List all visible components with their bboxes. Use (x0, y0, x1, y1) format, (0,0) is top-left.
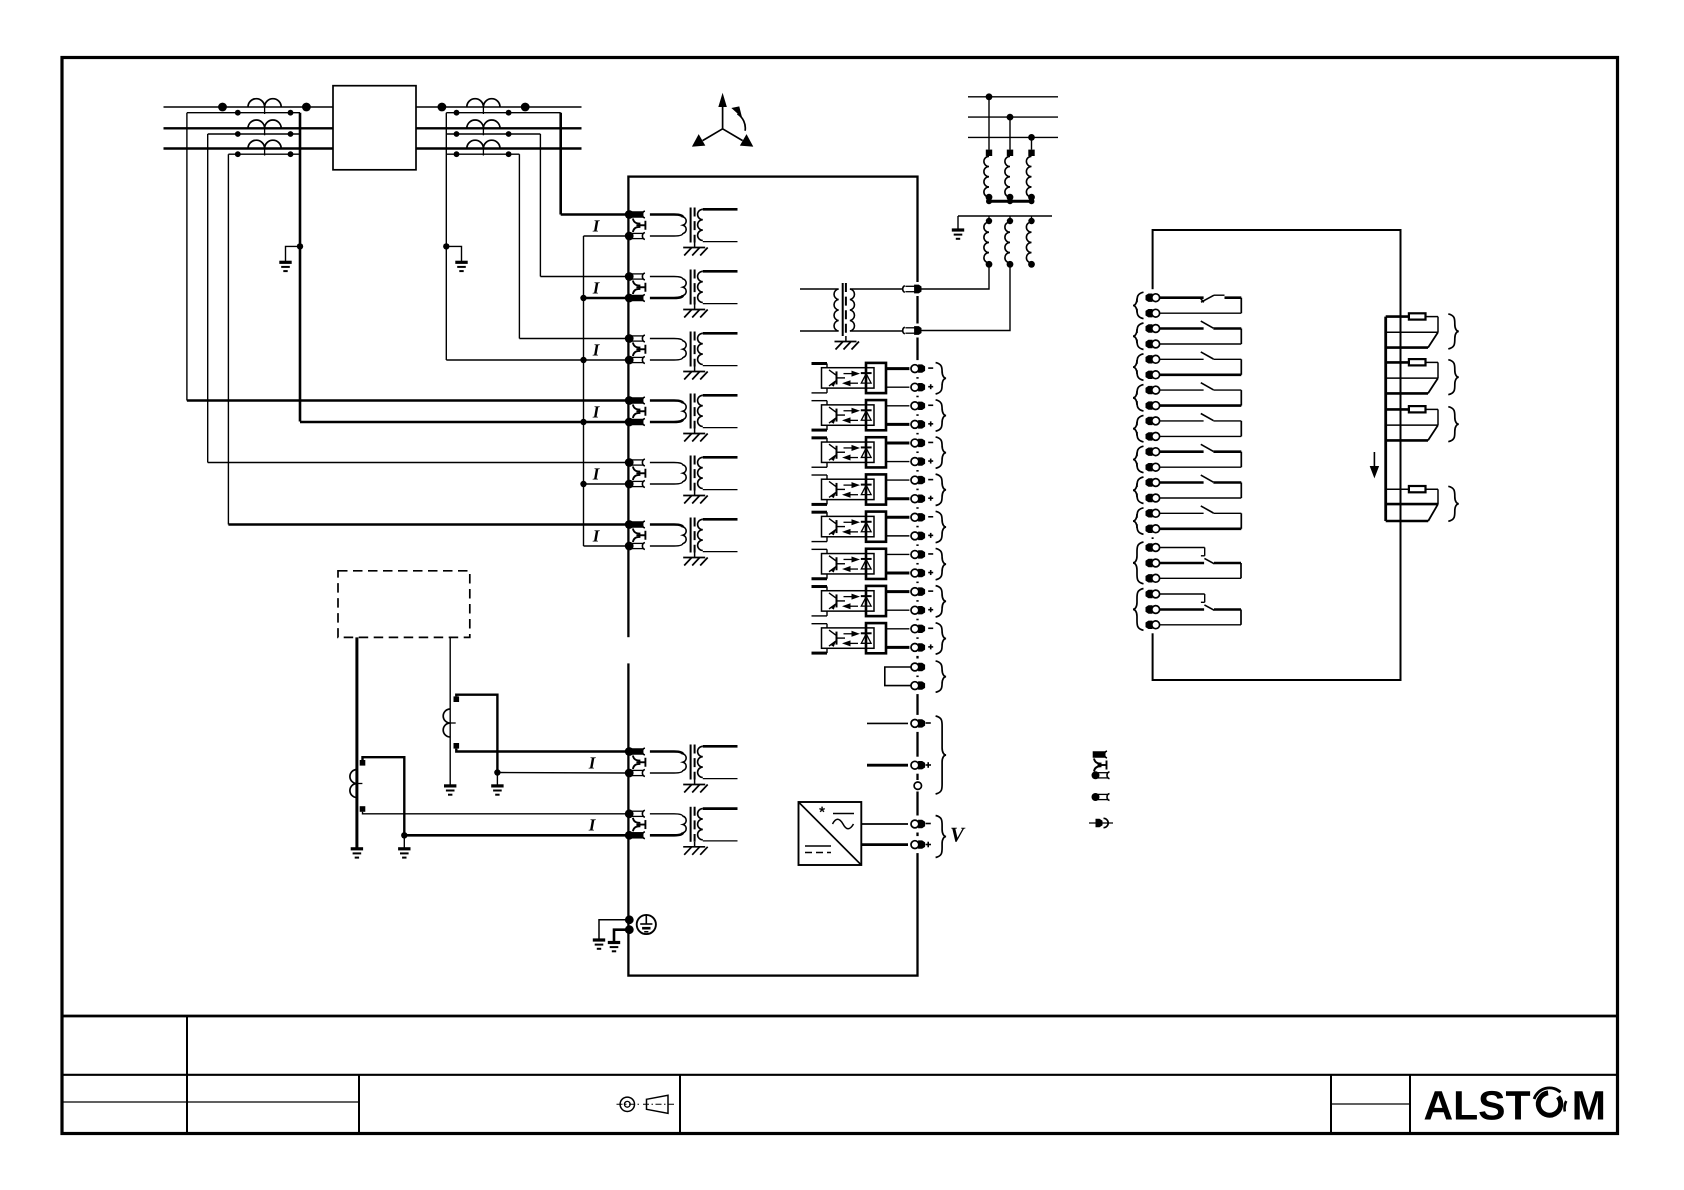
ground lead2 (444, 784, 456, 787)
terminal AC aux N (915, 324, 920, 338)
brace K8 (1133, 508, 1144, 535)
label - (opto3) (928, 441, 933, 443)
node link junction I3- (580, 357, 586, 363)
terminal K10 NC (1150, 586, 1155, 603)
wire case earth a (599, 920, 629, 940)
relay contact K5 (normally open) (1158, 420, 1204, 422)
legend: terminal symbol (1089, 822, 1113, 824)
internal CT T5 (650, 463, 683, 466)
wire T1 common to relay input I4- (300, 421, 628, 424)
brace opto1 (936, 363, 947, 394)
title block top line (62, 1015, 1618, 1018)
terminal AC aux L (915, 282, 920, 296)
terminal opto1 positive (915, 379, 920, 396)
terminal opto8 positive (915, 639, 920, 656)
ground VT secondary (952, 228, 964, 231)
label + (opto6) (928, 572, 933, 574)
node T1 secondary terminals (235, 151, 241, 157)
VT secondary winding phase A (986, 218, 992, 224)
terminal K9 NC (1150, 539, 1155, 556)
wire T1-B left lead drop (207, 134, 209, 463)
relay contact K4 (normally open) (1158, 389, 1204, 391)
wire to relay input I5+ (208, 462, 629, 464)
wire T2 common to relay input I3- (446, 359, 628, 361)
wire PSU to V+ terminal (861, 843, 908, 846)
ground T1 star point (279, 261, 291, 264)
relay case left edge break (626, 637, 632, 663)
title block mid line (62, 1074, 1618, 1076)
node T2 secondary terminals (454, 131, 460, 137)
connector X4 (1386, 488, 1438, 490)
optocoupler input U4 (812, 474, 828, 476)
terminal K9 NO (1150, 570, 1155, 587)
terminal opto4 negative (915, 472, 920, 489)
VT primary star bar (987, 200, 1035, 203)
wire VT primary tap phase A (988, 97, 990, 150)
brace V (936, 816, 947, 858)
terminal V- (915, 816, 920, 833)
auxiliary transformer Taux (800, 288, 839, 290)
node T2 star earth tap (443, 243, 449, 249)
T1 phase C secondary lead wire (228, 153, 300, 155)
relay CT input channel I4 terminals (625, 396, 634, 405)
label + (opto3) (928, 460, 933, 462)
label + (opto7) (928, 609, 933, 611)
terminal K10 NO (1150, 616, 1155, 633)
node link junction I2- (580, 295, 586, 301)
wire CT T8 return to relay I8- (404, 834, 628, 837)
node link junction I5- (580, 481, 586, 487)
terminal K3 a (1150, 351, 1155, 368)
title block cell divider v1 (186, 1016, 188, 1134)
connector X1 (1386, 315, 1410, 318)
wire DC aux positive (867, 764, 908, 767)
node T1 secondary terminals (235, 110, 241, 116)
terminal K5 a (1150, 412, 1155, 429)
optocoupler input U2 (812, 400, 828, 402)
transformer block (rectangle) (333, 86, 416, 170)
title block cell divider v2 (358, 1075, 360, 1134)
wire T2-C right lead drop (518, 154, 520, 338)
terminal K4 a (1150, 382, 1155, 399)
brace opto5 (936, 511, 947, 542)
relay output case (rectangle) (1153, 230, 1401, 680)
brace connector X2 (1448, 360, 1459, 395)
terminal opto3 positive (915, 453, 920, 470)
terminal K7 b (1150, 490, 1155, 507)
legend: disconnect terminal symbol (1092, 793, 1100, 801)
ground CT T7 (491, 784, 503, 787)
relay contact K6 (normally open) (1158, 450, 1204, 453)
label + (V) (926, 844, 932, 846)
brace K1 (1133, 292, 1144, 319)
wire T1-A left lead drop (186, 113, 188, 401)
title block cell divider v5 (1409, 1075, 1411, 1134)
T2 phase A secondary lead wire (446, 112, 560, 114)
CT T8 secondary terminals (360, 760, 366, 766)
node T2 secondary terminals (454, 151, 460, 157)
VT bus line L1 (968, 96, 1058, 98)
label + (DC aux) (926, 764, 932, 766)
VT primary winding phase C (1028, 150, 1034, 156)
wire T2-B right lead drop (539, 134, 541, 277)
VT secondary winding phase B (1007, 218, 1013, 224)
CT bank T1 phase B (humps) (248, 120, 281, 128)
brace K9 (1133, 542, 1144, 584)
CT T7 secondary terminals (454, 696, 460, 702)
optocoupler input U5 (812, 511, 828, 514)
relay CT input channel I7 terminals (625, 747, 634, 756)
label + (opto4) (928, 497, 933, 499)
label - (opto4) (928, 479, 933, 481)
brace opto6 (936, 548, 947, 579)
label - (opto8) (928, 627, 933, 629)
title block cell divider v4 (1330, 1075, 1332, 1134)
relay CT input channel I8 terminals (625, 809, 634, 818)
wire PSU to V- terminal (861, 823, 908, 825)
relay CT input channel I6 terminals (625, 520, 634, 529)
terminal K5 b (1150, 428, 1155, 445)
label - (opto6) (928, 553, 933, 555)
brace DC aux (936, 716, 947, 794)
power supply unit (DC/AC converter) (799, 802, 862, 865)
wire relay input I1- (584, 235, 629, 237)
relay contact K3 (normally open) (1158, 358, 1204, 360)
terminal K9 common (1150, 555, 1155, 572)
brace K4 (1133, 385, 1144, 412)
relay contact K9 (changeover) (1158, 547, 1205, 549)
VT secondary common wire (958, 215, 1052, 217)
node VT tap L1 (986, 93, 993, 100)
connector X2 (1386, 361, 1410, 364)
protective earth symbol (circled) (637, 915, 656, 934)
internal CT T8 (650, 814, 683, 817)
VT primary winding phase A (986, 150, 992, 156)
relay CT input channel I2 terminals (625, 272, 634, 281)
internal CT T6 (650, 525, 683, 528)
wire CT T8 earth stem (403, 835, 405, 849)
arrow (insertion direction) (1373, 452, 1375, 470)
brace opto2 (936, 400, 947, 431)
terminal K6 a (1150, 443, 1155, 460)
node VT tap L2 (1007, 114, 1014, 121)
relay CT input channel I3 terminals (625, 334, 634, 343)
internal CT T4 (650, 401, 683, 404)
terminal DC aux positive (915, 757, 920, 774)
terminal opto3 negative (915, 434, 920, 451)
relay contact K2 (normally open) (1158, 327, 1204, 330)
ground T2 star point (455, 261, 467, 264)
T2 phase B secondary lead wire (446, 133, 540, 135)
ground case earth b (608, 941, 620, 944)
T2 phase C secondary lead wire (446, 153, 519, 155)
label - (opto2) (928, 404, 933, 406)
brace connector X4 (1448, 486, 1459, 521)
CT T8 (lower sensing CT) (350, 770, 357, 798)
wire VT secondary earth stem (957, 216, 959, 230)
terminal opto7 positive (915, 602, 920, 619)
wire T1-C left lead drop (227, 154, 229, 524)
node CT T7 return tap (494, 769, 500, 775)
wire T2 star point drop (445, 113, 447, 360)
wire DC aux negative (867, 722, 908, 724)
brace K5 (1133, 415, 1144, 442)
label - (opto7) (928, 590, 933, 592)
terminal opto6 negative (915, 546, 920, 563)
terminal K8 b (1150, 520, 1155, 537)
wire VT secondary A to relay (918, 264, 989, 289)
wire dashed box lead 2 (449, 637, 451, 786)
terminal K2 b (1150, 336, 1155, 353)
terminal K8 a (1150, 505, 1155, 522)
brace K7 (1133, 477, 1144, 504)
legend: CT test terminal pair symbol (1093, 751, 1106, 758)
wire common return link (583, 236, 585, 546)
VT bus line L3 (968, 136, 1058, 138)
wire CT T7 return to relay I7- (497, 772, 628, 775)
terminal K3 b (1150, 366, 1155, 383)
ground CT T8 (398, 847, 410, 850)
brace connector X3 (1448, 407, 1459, 442)
external equipment (dashed box) (338, 571, 470, 638)
terminal K7 a (1150, 474, 1155, 491)
wire case earth b (614, 930, 629, 943)
terminal opto5 positive (915, 527, 920, 544)
first angle projection symbol (620, 1097, 634, 1111)
terminal K4 b (1150, 397, 1155, 414)
wire to T2 earth (446, 246, 461, 261)
brace opto3 (936, 437, 947, 468)
T1 phase A secondary lead wire (187, 112, 300, 114)
label - (DC aux) (926, 722, 931, 724)
relay CT input channel I1 terminals (625, 210, 634, 219)
wire CT T7 to relay I7+ (456, 749, 628, 752)
relay contact K7 (normally open) (1158, 481, 1204, 484)
ground lead1 (351, 847, 363, 850)
brace K2 (1133, 323, 1144, 350)
terminal opto6 positive (915, 565, 920, 582)
CT T7 (upper sensing CT) (443, 709, 450, 737)
optocoupler input U7 (812, 585, 828, 588)
phase line L1 (164, 106, 582, 108)
VT primary winding phase B (1007, 150, 1013, 156)
brace opto8 (936, 623, 947, 654)
T1 phase B secondary lead wire (208, 133, 300, 135)
brace opto7 (936, 586, 947, 617)
CT bank T2 phase C (humps) (467, 140, 500, 148)
wire to relay input I2+ (540, 276, 628, 278)
wire T1 star point drop (299, 113, 302, 422)
optocoupler input U1 (812, 362, 828, 365)
label + (opto2) (928, 423, 933, 425)
relay contact K1 (normally open) (1158, 296, 1204, 299)
label + (opto5) (928, 534, 933, 536)
brace K6 (1133, 446, 1144, 473)
brace connector X1 (1448, 314, 1459, 349)
brace opto4 (936, 474, 947, 505)
brace spare (936, 661, 947, 692)
wire dashed box lead 1 (355, 637, 358, 848)
wire to relay input I3+ (519, 338, 628, 340)
wire T2-A right lead drop (559, 113, 562, 215)
label + (opto1) (928, 386, 933, 388)
title block cell divider v3 (679, 1075, 681, 1134)
terminal K6 b (1150, 459, 1155, 476)
svg-text:ALST: ALST (1424, 1083, 1531, 1129)
terminal K2 a (1150, 320, 1155, 337)
wire to relay input I4+ (187, 399, 629, 402)
wire to relay input I6+ (228, 523, 628, 526)
phase line L2 (164, 127, 582, 129)
connector X3 (1386, 408, 1410, 411)
svg-text:*: * (819, 804, 825, 821)
spare input loop (rectangle) (885, 667, 912, 686)
terminal opto7 negative (915, 583, 920, 600)
internal CT T7 (650, 752, 683, 755)
terminal V+ (915, 836, 920, 853)
terminal case earth a (625, 915, 634, 924)
wire to relay input I1+ (561, 213, 629, 216)
brace K10 (1133, 589, 1144, 631)
title block revision line (62, 1101, 359, 1103)
relay contact K8 (normally open) (1158, 512, 1204, 514)
terminal opto1 negative (915, 360, 920, 377)
wire relay input I2- (584, 297, 629, 300)
terminal opto2 negative (915, 397, 920, 414)
VT bus line L2 (968, 116, 1058, 118)
relay contact K10 (changeover) (1158, 593, 1205, 595)
CT bank T1 phase A (humps) (248, 99, 281, 107)
CT bank T2 phase B (humps) (467, 120, 500, 128)
terminal case earth b (625, 925, 634, 934)
wire relay input I5- (584, 483, 629, 485)
wire relay input I6- (584, 545, 629, 547)
optocoupler input U3 (812, 436, 828, 439)
label - (opto5) (928, 516, 933, 518)
CT bank T1 phase C (humps) (248, 140, 281, 148)
terminal case middle (circle) (916, 780, 921, 792)
node CT T8 return tap (401, 832, 407, 838)
wire VT primary tap phase B (1009, 117, 1011, 150)
terminal spare a (915, 659, 920, 676)
terminal DC aux negative (915, 715, 920, 732)
node link junction I4- (580, 419, 586, 425)
optocoupler input U6 (812, 548, 828, 550)
terminal opto5 negative (915, 509, 920, 526)
terminal opto8 negative (915, 620, 920, 637)
wire CT T8 to relay I8+ (363, 812, 629, 814)
node phase A polarity dots (218, 103, 227, 112)
wire CT T7 earth stem (496, 773, 498, 786)
label - (V) (926, 823, 931, 825)
brace K3 (1133, 354, 1144, 381)
phase line L3 (164, 147, 582, 150)
internal CT T1 (650, 215, 683, 218)
node T1 star earth tap (297, 243, 303, 249)
optocoupler input U8 (812, 623, 828, 625)
svg-text:V: V (950, 823, 966, 847)
node T2 secondary terminals (454, 110, 460, 116)
phase rotation symbol (722, 105, 724, 129)
svg-text:M: M (1572, 1083, 1606, 1129)
wire to T1 earth (286, 246, 301, 261)
title block small cell line (1331, 1103, 1410, 1105)
relay case (main rectangle) (628, 177, 917, 976)
terminal opto2 positive (915, 416, 920, 433)
VT secondary winding phase C (1028, 218, 1034, 224)
internal CT T2 (650, 277, 683, 280)
terminal K10 common (1150, 601, 1155, 618)
CT T7 secondary loop (456, 695, 497, 773)
CT T8 secondary loop (363, 757, 405, 835)
terminal spare b (915, 677, 920, 694)
wire VT secondary B to relay (918, 264, 1010, 330)
internal CT T3 (650, 339, 683, 342)
terminal opto4 positive (915, 490, 920, 507)
wire VT primary tap phase C (1031, 137, 1033, 149)
ground case earth a (593, 938, 605, 941)
terminal K1 a (1150, 289, 1155, 306)
node VT tap L3 (1028, 134, 1035, 141)
relay CT input channel I5 terminals (625, 458, 634, 467)
CT bank T2 phase A (humps) (467, 99, 500, 107)
label + (opto8) (928, 646, 933, 648)
wire connector rail (1384, 317, 1387, 521)
label - (opto1) (928, 367, 933, 369)
node T1 secondary terminals (235, 131, 241, 137)
terminal K1 b (1150, 305, 1155, 322)
